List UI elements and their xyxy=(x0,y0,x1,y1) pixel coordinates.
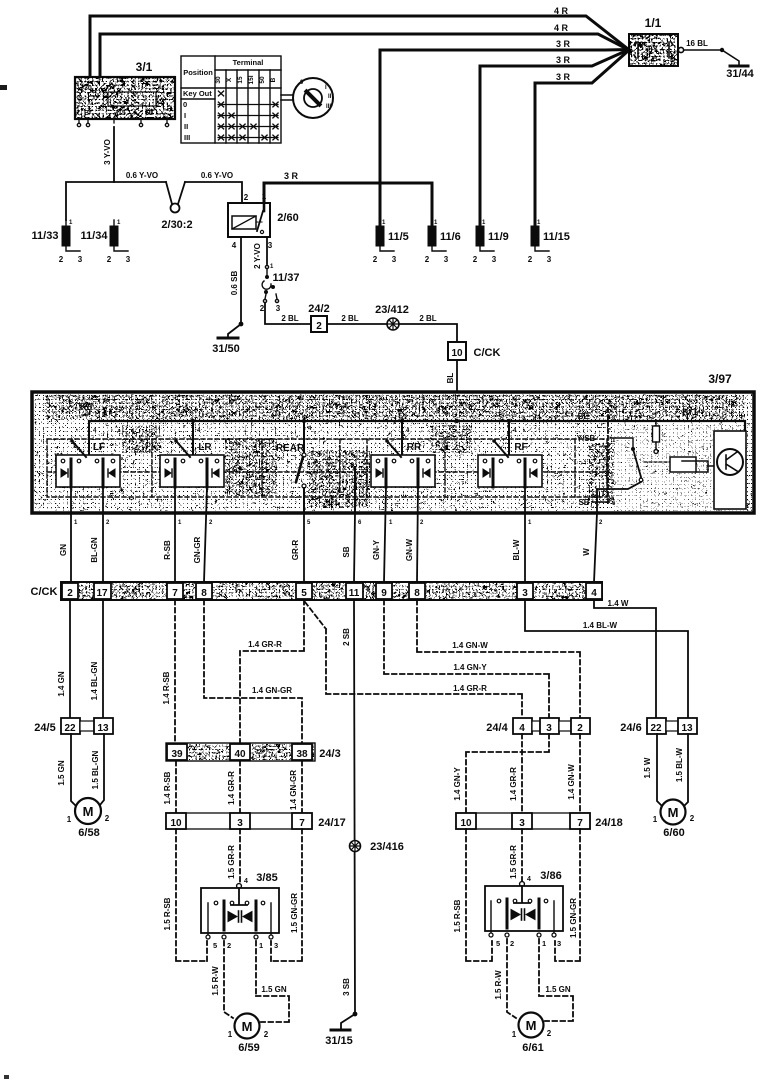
svg-text:11/5: 11/5 xyxy=(388,231,409,243)
node dot before 31/50 xyxy=(239,322,244,327)
wire BL-W box to C/CK 3 xyxy=(524,487,526,582)
svg-text:III: III xyxy=(326,104,331,110)
svg-text:1.5 GR-R: 1.5 GR-R xyxy=(509,845,518,879)
svg-text:Y-SB: Y-SB xyxy=(577,434,596,443)
node dots on supply wire xyxy=(191,419,511,423)
wire R-SB box to C/CK 7 xyxy=(174,487,176,582)
svg-text:1.4 GR-R: 1.4 GR-R xyxy=(248,640,282,649)
svg-text:11/37: 11/37 xyxy=(273,272,300,284)
svg-text:24/5: 24/5 xyxy=(34,722,55,734)
svg-text:10: 10 xyxy=(451,348,463,359)
svg-text:1.4 GN: 1.4 GN xyxy=(57,671,66,697)
svg-text:1.4 R-SB: 1.4 R-SB xyxy=(162,671,171,704)
svg-text:11/9: 11/9 xyxy=(488,231,509,243)
dashed 24/17-3 to 3/85 pin4 xyxy=(239,829,241,884)
ground lead 31/15 xyxy=(341,1014,355,1029)
svg-text:2: 2 xyxy=(209,520,213,526)
key symbol xyxy=(293,78,333,118)
K/1 indicator box xyxy=(714,431,746,509)
svg-text:1: 1 xyxy=(389,520,393,526)
svg-text:2/30:2: 2/30:2 xyxy=(161,219,192,231)
svg-text:2: 2 xyxy=(420,520,424,526)
svg-text:2: 2 xyxy=(599,520,603,526)
connector strip C/CK xyxy=(61,582,602,600)
connector 11/34 xyxy=(81,220,131,264)
svg-text:0.6 SB: 0.6 SB xyxy=(230,271,239,296)
svg-text:2: 2 xyxy=(244,193,249,202)
svg-text:1: 1 xyxy=(69,220,73,226)
svg-text:1.4 GN-Y: 1.4 GN-Y xyxy=(453,663,487,672)
svg-text:1.5 GN: 1.5 GN xyxy=(57,760,66,786)
K/1 relay switch xyxy=(631,447,643,482)
ground symbol 31/15 xyxy=(331,1029,350,1032)
svg-text:Key Out: Key Out xyxy=(183,89,212,98)
wire 1.4 GN-Y dashed xyxy=(384,600,549,718)
svg-text:3: 3 xyxy=(492,255,497,264)
svg-text:15: 15 xyxy=(237,76,244,84)
ignition switch 3/1 xyxy=(75,77,175,119)
node dot 31/15 xyxy=(353,1012,358,1017)
svg-text:1.5 R-SB: 1.5 R-SB xyxy=(453,899,462,932)
dashed 24/17-7 loop to 3/85 pin3 xyxy=(271,829,302,961)
ignition table xyxy=(181,56,281,143)
svg-text:3 Y-VO: 3 Y-VO xyxy=(103,139,112,165)
svg-text:11/33: 11/33 xyxy=(32,230,59,242)
svg-text:SB: SB xyxy=(578,498,589,507)
svg-text:2 BL: 2 BL xyxy=(419,314,436,323)
svg-text:REAR: REAR xyxy=(276,443,305,454)
svg-text:1: 1 xyxy=(178,520,182,526)
K/1 relay white area xyxy=(614,420,744,511)
C/CK pin 8b xyxy=(409,583,425,599)
wire GN box to C/CK 2 xyxy=(70,487,72,582)
svg-text:1.5 BL-GN: 1.5 BL-GN xyxy=(91,750,100,789)
svg-text:1.4 GN-W: 1.4 GN-W xyxy=(567,764,576,800)
svg-text:1.4 GR-R: 1.4 GR-R xyxy=(227,771,236,805)
box exit pin digits xyxy=(74,520,603,526)
C/CK pin 3 xyxy=(517,583,533,599)
svg-text:1.5 GN-GR: 1.5 GN-GR xyxy=(569,898,578,938)
dashed 24/18-3 to 3/86 pin4 xyxy=(521,829,523,882)
svg-text:30: 30 xyxy=(84,85,92,92)
svg-text:II: II xyxy=(328,94,332,100)
svg-text:10: 10 xyxy=(170,818,182,829)
svg-text:1: 1 xyxy=(262,192,267,201)
switch REAR xyxy=(276,443,306,513)
svg-text:3: 3 xyxy=(547,255,552,264)
svg-text:LF: LF xyxy=(93,442,105,453)
wire BL into 3/97 xyxy=(456,360,458,393)
svg-text:3: 3 xyxy=(78,255,83,264)
svg-text:K/1: K/1 xyxy=(682,407,698,418)
svg-text:W: W xyxy=(582,548,591,556)
svg-text:13: 13 xyxy=(97,723,109,734)
svg-text:8Y: 8Y xyxy=(648,45,658,54)
svg-text:3: 3 xyxy=(276,304,281,313)
svg-text:1.4 R-SB: 1.4 R-SB xyxy=(163,771,172,804)
dashed 40 to 24/17 xyxy=(239,761,241,813)
svg-text:7: 7 xyxy=(577,818,583,829)
svg-text:1: 1 xyxy=(117,220,121,226)
svg-text:2: 2 xyxy=(105,814,110,823)
svg-text:1: 1 xyxy=(67,815,72,824)
svg-text:0.6 Y-VO: 0.6 Y-VO xyxy=(201,171,233,180)
svg-text:M: M xyxy=(83,804,94,819)
svg-text:24/6: 24/6 xyxy=(620,722,641,734)
C/CK pin 9 xyxy=(376,583,392,599)
svg-text:1.4 GR-R: 1.4 GR-R xyxy=(453,684,487,693)
svg-text:6/59: 6/59 xyxy=(238,1042,259,1054)
svg-text:1: 1 xyxy=(542,939,546,948)
ground symbol 31/50 xyxy=(218,337,238,340)
svg-text:4: 4 xyxy=(244,878,248,885)
svg-text:BL-GN: BL-GN xyxy=(90,537,99,563)
svg-text:RF: RF xyxy=(514,442,527,453)
connector C/CK 10 xyxy=(448,342,466,360)
svg-text:3 R: 3 R xyxy=(556,72,571,82)
svg-text:3: 3 xyxy=(237,818,243,829)
wire 0.6 Y-VO left branch xyxy=(66,182,166,220)
svg-text:24/18: 24/18 xyxy=(595,817,623,829)
switch 3/85 xyxy=(201,878,279,950)
motor 6/61 xyxy=(512,1013,552,1040)
dashed 38 to 24/17 xyxy=(301,761,303,813)
dashed 24/18-10 loop to 3/86 pin5 xyxy=(466,829,492,961)
svg-text:3 SB: 3 SB xyxy=(342,978,351,996)
svg-text:7: 7 xyxy=(172,588,178,599)
svg-text:1: 1 xyxy=(482,220,486,226)
svg-text:1: 1 xyxy=(228,1030,233,1039)
svg-text:15: 15 xyxy=(118,110,126,117)
svg-text:2 BL: 2 BL xyxy=(281,314,298,323)
svg-text:6/61: 6/61 xyxy=(522,1042,543,1054)
wire 1.5 GN xyxy=(71,734,76,806)
svg-text:M: M xyxy=(242,1019,253,1034)
svg-text:C/CK: C/CK xyxy=(31,586,58,598)
wire 1.5 BL-GN xyxy=(100,734,104,805)
svg-text:K/I: K/I xyxy=(80,402,93,413)
svg-text:SB: SB xyxy=(342,546,351,557)
wire 0.6 Y-VO right branch xyxy=(185,182,242,203)
svg-text:4: 4 xyxy=(519,723,525,734)
node dot 16BL xyxy=(720,48,724,52)
svg-text:13: 13 xyxy=(681,723,693,734)
K/1 SB stub xyxy=(592,501,608,503)
wire GN-GR box to C/CK 8 xyxy=(204,487,207,582)
terminal circle at 1/1 right xyxy=(678,47,683,52)
wire 1.4 BL-W xyxy=(525,600,688,718)
svg-text:1.4 GR-R: 1.4 GR-R xyxy=(509,767,518,801)
svg-text:LR: LR xyxy=(198,442,212,453)
connector 11/37 xyxy=(260,264,281,313)
svg-text:1.4 GN-GR: 1.4 GN-GR xyxy=(289,770,298,810)
wire 3 Y-VO from 3/1 xyxy=(113,127,115,182)
svg-text:6/60: 6/60 xyxy=(663,827,684,839)
motor 6/60 xyxy=(653,800,695,825)
svg-text:8: 8 xyxy=(201,588,207,599)
svg-text:11: 11 xyxy=(349,588,360,599)
svg-text:C/CK: C/CK xyxy=(474,347,501,359)
fuse box 1/1 xyxy=(629,34,678,66)
svg-text:3: 3 xyxy=(557,939,561,948)
svg-text:3: 3 xyxy=(444,255,449,264)
svg-text:1.5 W: 1.5 W xyxy=(643,757,652,778)
relay 2/60 xyxy=(228,192,273,250)
connector 24/17 xyxy=(166,813,312,829)
svg-text:3: 3 xyxy=(522,588,528,599)
svg-text:2 BL: 2 BL xyxy=(341,314,358,323)
svg-text:24/3: 24/3 xyxy=(319,748,340,760)
svg-text:3/85: 3/85 xyxy=(256,872,277,884)
svg-text:30: 30 xyxy=(215,76,222,84)
svg-text:1: 1 xyxy=(653,815,658,824)
svg-text:16 BL: 16 BL xyxy=(686,39,708,48)
svg-text:3 R: 3 R xyxy=(556,39,571,49)
dashed 24/18-7 loop to 3/86 pin3 xyxy=(555,829,580,961)
svg-text:BL: BL xyxy=(578,412,589,421)
C/CK pin 8 xyxy=(196,583,212,599)
dashed 24/4-4 to 24/18-3 xyxy=(521,734,523,813)
svg-text:2: 2 xyxy=(264,1030,269,1039)
svg-text:11/34: 11/34 xyxy=(81,230,109,242)
svg-text:GN: GN xyxy=(59,544,68,556)
svg-text:1.5 R-W: 1.5 R-W xyxy=(211,966,220,996)
ground lead 31/50 xyxy=(228,324,241,337)
dashed 3/85 pin1 to motor xyxy=(256,941,289,1022)
svg-text:4 R: 4 R xyxy=(554,6,569,16)
dashed unit boundary left xyxy=(47,439,607,497)
svg-text:23/416: 23/416 xyxy=(370,841,404,853)
ground symbol 31/44 xyxy=(730,65,748,68)
svg-text:1.4 GN-Y: 1.4 GN-Y xyxy=(453,767,462,801)
svg-text:1.4 BL-GN: 1.4 BL-GN xyxy=(90,661,99,700)
svg-text:2: 2 xyxy=(473,255,478,264)
connector 2/30:2 xyxy=(166,182,185,213)
svg-text:BL-W: BL-W xyxy=(512,539,521,560)
svg-text:4 R: 4 R xyxy=(554,23,569,33)
wire GN-Y box to C/CK 9 xyxy=(384,487,386,582)
wire 1.5 W xyxy=(657,734,662,806)
svg-text:2: 2 xyxy=(67,588,73,599)
svg-text:5: 5 xyxy=(301,588,307,599)
svg-text:2/60: 2/60 xyxy=(277,212,298,224)
feed pin tick labels xyxy=(93,426,517,434)
svg-text:24/4: 24/4 xyxy=(486,722,508,734)
svg-text:31/44: 31/44 xyxy=(726,68,754,80)
svg-text:23/412: 23/412 xyxy=(375,304,409,316)
wire 3R from 11/5 xyxy=(380,50,628,225)
svg-text:1.5 BL-W: 1.5 BL-W xyxy=(675,747,684,782)
svg-text:39: 39 xyxy=(171,749,183,760)
splice 23/412 xyxy=(387,318,399,330)
svg-text:6: 6 xyxy=(358,520,362,526)
wire 2 BL c xyxy=(399,324,457,342)
ground lead 31/44 xyxy=(722,50,739,65)
dashed 24/4-2 to 24/18-7 xyxy=(579,734,581,813)
svg-text:1.5 R-SB: 1.5 R-SB xyxy=(163,897,172,930)
wire 2 BL run xyxy=(265,303,311,324)
svg-text:1.5 GN: 1.5 GN xyxy=(261,985,287,994)
svg-text:1/1: 1/1 xyxy=(645,16,662,30)
svg-text:GN-Y: GN-Y xyxy=(372,539,381,560)
svg-text:3 R: 3 R xyxy=(284,171,299,181)
connector 11/15 xyxy=(528,219,570,264)
wire 1.4 GN xyxy=(69,600,71,718)
svg-text:1.4 W: 1.4 W xyxy=(608,599,629,608)
wire 1.4 BL-GN xyxy=(102,600,104,718)
svg-text:3: 3 xyxy=(274,941,278,950)
svg-text:1.4 BL-W: 1.4 BL-W xyxy=(583,621,618,630)
svg-text:2: 2 xyxy=(107,255,112,264)
C/CK pin 11 xyxy=(346,583,363,599)
K/1 Y-SB link xyxy=(610,438,633,447)
scan smudge bottom-left xyxy=(4,1075,9,1079)
window switch LF xyxy=(56,439,120,487)
svg-text:3/86: 3/86 xyxy=(540,870,561,882)
svg-text:1: 1 xyxy=(259,941,263,950)
wire SB box to C/CK 11 xyxy=(354,513,355,582)
wire 1.5 BL-W xyxy=(684,734,688,806)
svg-text:1: 1 xyxy=(528,520,532,526)
switch 3/86 xyxy=(485,876,563,948)
contact cross rows xyxy=(218,105,278,138)
svg-text:Terminal: Terminal xyxy=(233,58,264,67)
svg-text:8: 8 xyxy=(414,588,420,599)
svg-text:9: 9 xyxy=(381,588,387,599)
wire 1.4 R-SB dashed xyxy=(174,600,176,744)
window switch RR xyxy=(371,439,435,487)
scan smudge left xyxy=(0,85,7,90)
svg-text:15I: 15I xyxy=(248,75,255,84)
K/1 pin ticks xyxy=(611,416,616,507)
K/1 coil link dashes xyxy=(644,461,670,463)
svg-text:BL: BL xyxy=(446,373,455,384)
wire SB inside box xyxy=(354,468,356,513)
connector 24/3 xyxy=(166,743,315,761)
svg-text:2: 2 xyxy=(59,255,64,264)
connector 11/33 xyxy=(32,220,83,264)
connector 24/5 xyxy=(61,718,113,734)
wire BL-GN box to C/CK 17 xyxy=(102,487,104,582)
svg-text:11/15: 11/15 xyxy=(543,231,570,243)
wire 16 BL xyxy=(684,49,720,51)
svg-text:1.5 GN: 1.5 GN xyxy=(545,985,571,994)
C/CK pin 2 xyxy=(62,583,78,599)
C/CK pin 5 xyxy=(296,583,312,599)
svg-text:III: III xyxy=(184,133,190,142)
wire 0.6 SB from 2/60 pin4 xyxy=(240,237,242,324)
svg-text:3: 3 xyxy=(268,241,273,250)
svg-text:M: M xyxy=(526,1018,537,1033)
svg-text:2: 2 xyxy=(577,723,583,734)
K/1 connector dashed boundary xyxy=(607,408,609,505)
connector 11/6 xyxy=(425,219,461,264)
wire 1.4 GN-GR dashed xyxy=(204,600,302,744)
wire 3R from 11/15 xyxy=(535,51,628,224)
dashed 39 to 24/17 xyxy=(175,761,177,813)
svg-text:4: 4 xyxy=(232,241,237,250)
svg-text:Position: Position xyxy=(183,68,213,77)
svg-text:2: 2 xyxy=(106,520,110,526)
wire GR-R box to C/CK 5 xyxy=(303,513,305,582)
svg-text:B: B xyxy=(270,77,277,82)
svg-text:3: 3 xyxy=(392,255,397,264)
svg-text:1: 1 xyxy=(537,220,541,226)
svg-text:2 SB: 2 SB xyxy=(342,628,351,646)
svg-text:17: 17 xyxy=(96,588,108,599)
K/1 resistor xyxy=(653,421,660,454)
svg-text:1.4 GN-W: 1.4 GN-W xyxy=(452,641,488,650)
svg-text:GR-R: GR-R xyxy=(291,540,300,561)
wire 4R top feed 1 xyxy=(90,16,628,78)
dashed 3/86 pin1 to motor xyxy=(539,939,573,1021)
svg-text:4: 4 xyxy=(527,876,531,883)
svg-text:1.4 GN-GR: 1.4 GN-GR xyxy=(252,686,292,695)
svg-text:1.5 GN-GR: 1.5 GN-GR xyxy=(290,893,299,933)
svg-text:2: 2 xyxy=(373,255,378,264)
splice 23/416 xyxy=(350,841,361,852)
svg-text:5: 5 xyxy=(213,941,217,950)
wire 1.4 GR-R dashed to 24/3 xyxy=(240,600,304,744)
svg-text:GN-GR: GN-GR xyxy=(193,536,202,563)
svg-text:B: B xyxy=(84,110,89,117)
svg-text:1.5 R-W: 1.5 R-W xyxy=(494,970,503,1000)
svg-text:24/17: 24/17 xyxy=(318,817,346,829)
connector 24/4 xyxy=(513,718,590,734)
svg-text:M: M xyxy=(668,805,679,820)
pins of 3/1 xyxy=(77,119,168,127)
wire 2 SB solid xyxy=(354,600,355,1014)
svg-text:5: 5 xyxy=(307,520,311,526)
svg-text:4: 4 xyxy=(591,588,597,599)
svg-text:31/15: 31/15 xyxy=(325,1035,353,1047)
C/CK pin 4 xyxy=(586,583,602,599)
svg-text:0.6 Y-VO: 0.6 Y-VO xyxy=(126,171,158,180)
svg-text:2: 2 xyxy=(316,321,322,332)
connector 24/2 xyxy=(311,316,327,332)
wire 2 Y-VO from 2/60 pin3 xyxy=(266,237,268,264)
dashed 3/85 pin2 to motor xyxy=(224,941,233,1018)
svg-text:II: II xyxy=(184,122,188,131)
svg-text:3: 3 xyxy=(126,255,131,264)
svg-text:3: 3 xyxy=(546,723,552,734)
wire 2 BL b xyxy=(327,323,387,325)
svg-text:3/1: 3/1 xyxy=(136,60,153,74)
svg-text:1: 1 xyxy=(382,220,386,226)
K/1 output path to W xyxy=(597,482,641,513)
central unit 3/97 box xyxy=(32,392,754,513)
svg-text:5: 5 xyxy=(496,939,500,948)
svg-text:40: 40 xyxy=(234,749,246,760)
svg-text:2: 2 xyxy=(425,255,430,264)
svg-text:31/50: 31/50 xyxy=(212,343,240,355)
svg-text:10: 10 xyxy=(460,818,472,829)
dashed 24/17-10 loop to 3/85 pin5 xyxy=(176,829,207,961)
wire 1.4 GR-R dashed to 24/4 xyxy=(305,602,522,718)
svg-text:38: 38 xyxy=(296,749,308,760)
svg-text:3: 3 xyxy=(519,818,525,829)
svg-text:22: 22 xyxy=(650,723,662,734)
svg-text:GN-W: GN-W xyxy=(405,538,414,561)
connector 11/5 xyxy=(373,219,409,264)
svg-text:50: 50 xyxy=(145,110,153,117)
svg-text:1: 1 xyxy=(434,220,438,226)
svg-text:X: X xyxy=(226,77,233,82)
window switch LR xyxy=(160,439,224,487)
supply wire inside 3/97 xyxy=(89,421,745,431)
C/CK pin 7 xyxy=(167,583,183,599)
svg-text:1.5 GR-R: 1.5 GR-R xyxy=(227,845,236,879)
